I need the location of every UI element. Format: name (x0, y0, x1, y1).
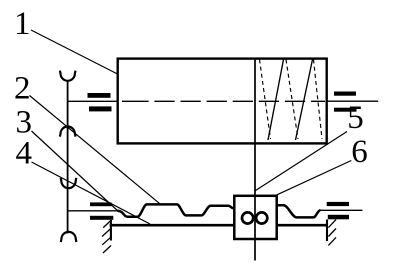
svg-text:1: 1 (14, 6, 31, 42)
svg-text:2: 2 (14, 71, 31, 107)
svg-text:4: 4 (16, 136, 33, 172)
svg-text:5: 5 (347, 100, 364, 136)
svg-text:6: 6 (351, 134, 368, 170)
